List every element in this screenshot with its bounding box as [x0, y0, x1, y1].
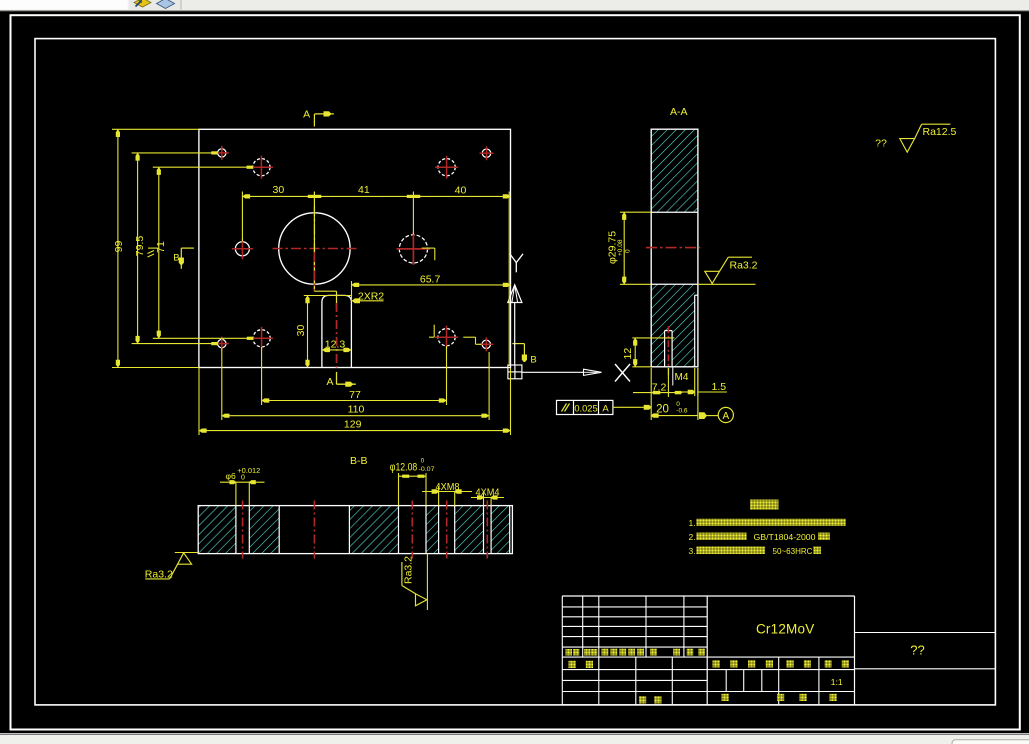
- svg-text:41: 41: [358, 184, 370, 196]
- svg-text:30: 30: [295, 325, 307, 337]
- svg-text:Ra12.5: Ra12.5: [923, 126, 957, 138]
- svg-text:A: A: [326, 376, 333, 388]
- svg-text:129: 129: [344, 419, 362, 431]
- svg-text:50~63HRC: 50~63HRC: [773, 546, 813, 556]
- svg-text:65.7: 65.7: [420, 273, 441, 285]
- svg-text:1.5: 1.5: [711, 381, 726, 393]
- svg-text:M4: M4: [675, 372, 689, 383]
- svg-text:30: 30: [273, 184, 285, 196]
- svg-text:12.3: 12.3: [325, 339, 346, 351]
- svg-text:1:1: 1:1: [831, 677, 843, 687]
- svg-text:20: 20: [656, 404, 669, 416]
- svg-text:3.: 3.: [689, 546, 696, 556]
- svg-text:B: B: [173, 253, 179, 264]
- svg-text:φ12.08: φ12.08: [390, 462, 418, 474]
- svg-text:7.2: 7.2: [652, 382, 667, 394]
- svg-text:??: ??: [875, 138, 887, 150]
- svg-text:φ6: φ6: [226, 471, 237, 481]
- svg-text:99: 99: [113, 241, 125, 253]
- svg-text:0.025: 0.025: [574, 403, 597, 413]
- svg-text:12: 12: [622, 348, 634, 360]
- svg-text:110: 110: [348, 404, 365, 416]
- svg-text:1.: 1.: [689, 518, 696, 528]
- svg-text:??: ??: [910, 643, 924, 658]
- svg-text:71: 71: [155, 241, 167, 253]
- svg-text:2.: 2.: [689, 532, 696, 542]
- svg-text:A: A: [602, 404, 609, 415]
- svg-text:2XR2: 2XR2: [358, 290, 384, 302]
- svg-text:A: A: [303, 109, 310, 121]
- svg-text:A-A: A-A: [670, 106, 688, 118]
- svg-text:Ra3.2: Ra3.2: [145, 568, 173, 580]
- svg-text:Ra3.2: Ra3.2: [403, 556, 415, 584]
- svg-text:Ra3.2: Ra3.2: [730, 260, 758, 272]
- svg-text:40: 40: [455, 185, 467, 197]
- svg-text:B-B: B-B: [350, 455, 368, 467]
- svg-text:-0.07: -0.07: [419, 466, 435, 473]
- svg-text:-0.6: -0.6: [676, 408, 688, 415]
- svg-text:GB/T1804-2000: GB/T1804-2000: [754, 532, 816, 542]
- svg-text:0: 0: [625, 249, 632, 253]
- svg-text:0: 0: [241, 475, 245, 482]
- svg-text:+0.08: +0.08: [617, 239, 624, 256]
- svg-text:B: B: [530, 355, 536, 366]
- svg-text:Cr12MoV: Cr12MoV: [756, 622, 814, 637]
- svg-text:A: A: [722, 411, 729, 422]
- svg-text:77: 77: [349, 389, 361, 401]
- svg-text:79.5: 79.5: [134, 236, 146, 257]
